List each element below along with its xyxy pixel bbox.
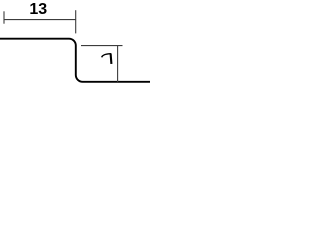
dimension label 7 (rotated glyph)	[102, 53, 112, 64]
extension line of dimension 7 (horizontal)	[81, 45, 123, 47]
dimension line 7 (vertical)	[117, 46, 119, 82]
right extension line of dimension 13	[75, 10, 77, 33]
svg-text:13: 13	[29, 1, 47, 18]
dimension line 13 (horizontal)	[4, 19, 76, 21]
left tick of dimension 13	[3, 11, 5, 23]
profile outline (Z-step cross-section)	[0, 39, 150, 82]
